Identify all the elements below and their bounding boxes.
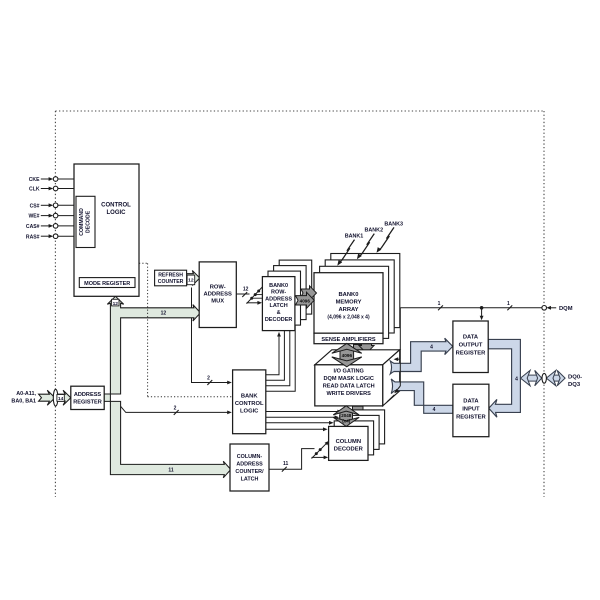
svg-text:ADDRESS: ADDRESS: [265, 296, 292, 302]
svg-text:BA0, BA1: BA0, BA1: [11, 398, 36, 404]
svg-text:LATCH: LATCH: [269, 303, 287, 309]
svg-text:DQM: DQM: [559, 306, 573, 312]
svg-text:DQ3: DQ3: [568, 382, 581, 388]
svg-text:1: 1: [438, 301, 441, 307]
svg-text:MUX: MUX: [211, 299, 224, 305]
svg-text:2048: 2048: [341, 413, 352, 418]
svg-text:BANK3: BANK3: [384, 221, 403, 227]
svg-text:ADDRESS: ADDRESS: [204, 292, 232, 298]
svg-text:READ DATA LATCH: READ DATA LATCH: [323, 384, 375, 390]
svg-text:I/O GATING: I/O GATING: [334, 369, 364, 375]
svg-text:BANK0: BANK0: [269, 283, 288, 289]
svg-text:4: 4: [430, 344, 433, 350]
svg-text:BANK0: BANK0: [339, 292, 359, 298]
svg-text:DECODER: DECODER: [265, 317, 293, 323]
svg-text:11: 11: [168, 468, 174, 474]
svg-text:DECODER: DECODER: [334, 447, 364, 453]
svg-text:DECODE: DECODE: [86, 210, 92, 233]
svg-text:12: 12: [113, 301, 119, 307]
svg-text:1: 1: [507, 301, 510, 307]
svg-text:CS#: CS#: [30, 203, 40, 209]
svg-text:12: 12: [161, 311, 167, 317]
svg-text:ROW-: ROW-: [210, 285, 226, 291]
svg-text:ROW-: ROW-: [271, 290, 286, 296]
svg-text:BANK1: BANK1: [345, 233, 364, 239]
svg-text:REGISTER: REGISTER: [73, 399, 102, 405]
svg-text:REGISTER: REGISTER: [456, 350, 486, 356]
svg-text:DATA: DATA: [463, 334, 479, 340]
svg-text:12: 12: [188, 278, 194, 284]
svg-text:(4,096 x 2,048 x 4): (4,096 x 2,048 x 4): [327, 314, 370, 320]
svg-text:SENSE AMPLIFIERS: SENSE AMPLIFIERS: [321, 337, 375, 343]
svg-text:MODE REGISTER: MODE REGISTER: [84, 281, 130, 287]
svg-text:INPUT: INPUT: [462, 407, 480, 413]
svg-text:WRITE DRIVERS: WRITE DRIVERS: [326, 391, 371, 397]
svg-text:LOGIC: LOGIC: [107, 210, 127, 216]
svg-text:BANK: BANK: [241, 394, 259, 400]
svg-text:COMMAND: COMMAND: [79, 208, 85, 236]
svg-text:LATCH: LATCH: [241, 476, 259, 482]
svg-text:&: &: [277, 310, 281, 316]
svg-text:A0-A11,: A0-A11,: [16, 391, 36, 397]
svg-text:CONTROL: CONTROL: [235, 401, 264, 407]
svg-text:COUNTER: COUNTER: [158, 279, 184, 285]
svg-text:DATA: DATA: [463, 399, 479, 405]
svg-text:BANK2: BANK2: [365, 227, 384, 233]
svg-text:4096: 4096: [300, 299, 311, 304]
svg-text:COUNTER/: COUNTER/: [235, 469, 264, 475]
svg-text:CAS#: CAS#: [26, 224, 40, 230]
svg-text:CLK: CLK: [29, 187, 40, 193]
svg-text:CONTROL: CONTROL: [101, 203, 131, 209]
svg-text:4: 4: [515, 377, 518, 383]
svg-text:COLUMN: COLUMN: [336, 439, 361, 445]
svg-text:RAS#: RAS#: [26, 234, 40, 240]
svg-text:14: 14: [58, 396, 64, 402]
svg-text:11: 11: [283, 461, 289, 467]
svg-text:WE#: WE#: [28, 214, 39, 220]
svg-text:4096: 4096: [342, 353, 353, 358]
svg-text:2: 2: [174, 405, 177, 411]
svg-text:(x4): (x4): [342, 419, 351, 424]
svg-text:DQ0-: DQ0-: [568, 375, 582, 381]
svg-text:REGISTER: REGISTER: [456, 415, 486, 421]
svg-text:ADDRESS: ADDRESS: [236, 461, 263, 467]
svg-text:ARRAY: ARRAY: [338, 307, 358, 313]
svg-text:ADDRESS: ADDRESS: [74, 392, 102, 398]
svg-text:MEMORY: MEMORY: [336, 299, 362, 305]
svg-text:CKE: CKE: [29, 177, 40, 183]
svg-text:LOGIC: LOGIC: [240, 409, 259, 415]
svg-text:REFRESH: REFRESH: [158, 273, 183, 279]
svg-text:COLUMN-: COLUMN-: [237, 454, 263, 460]
svg-text:DQM MASK LOGIC: DQM MASK LOGIC: [324, 376, 374, 382]
svg-text:4: 4: [433, 407, 436, 413]
svg-text:2: 2: [207, 375, 210, 381]
svg-text:OUTPUT: OUTPUT: [459, 342, 483, 348]
svg-text:12: 12: [243, 286, 249, 292]
